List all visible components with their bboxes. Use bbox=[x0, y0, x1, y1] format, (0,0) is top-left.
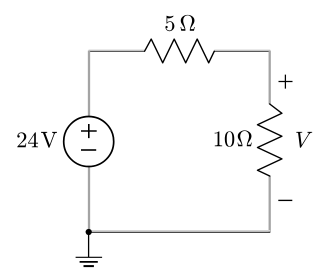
wire top right segment bbox=[214, 50, 270, 52]
voltage source minus sign bbox=[81, 149, 96, 151]
wire bottom bbox=[88, 231, 270, 233]
ground symbol bar 3 bbox=[84, 265, 94, 267]
label glyph digit 1 bbox=[215, 131, 223, 146]
ground symbol bar 1 bbox=[76, 256, 103, 258]
label glyph digit 0 bbox=[225, 131, 234, 146]
resistor R1 5 ohm zigzag bbox=[145, 39, 215, 63]
label glyph Omega top bbox=[180, 15, 194, 31]
wire top left segment bbox=[88, 50, 144, 52]
label glyph italic V bbox=[296, 132, 312, 148]
polarity plus sign above R2 bbox=[279, 75, 293, 89]
wire left lower bbox=[88, 167, 90, 231]
wire left upper bbox=[88, 51, 90, 117]
wire right lower bbox=[269, 176, 271, 233]
resistor R2 10 ohm zigzag bbox=[258, 104, 282, 176]
node junction dot bbox=[86, 229, 92, 235]
label glyph digit 4 bbox=[28, 132, 38, 147]
ground stub wire bbox=[88, 232, 90, 257]
label glyph letter V bbox=[41, 132, 57, 148]
wire bottom halo bbox=[89, 230, 271, 232]
label glyph Omega right bbox=[237, 130, 251, 146]
label glyph digit 5 bbox=[165, 16, 174, 31]
wire right upper bbox=[269, 51, 271, 105]
wire top halo left bbox=[89, 49, 145, 51]
wire top halo right bbox=[214, 49, 270, 51]
voltage source VS circle bbox=[64, 117, 114, 167]
polarity minus sign below R2 bbox=[278, 199, 292, 201]
label glyph digit 2 bbox=[17, 132, 26, 147]
ground symbol bar 2 bbox=[80, 261, 98, 263]
voltage source plus sign bbox=[81, 124, 97, 138]
